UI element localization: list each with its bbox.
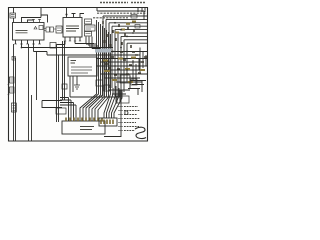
ground bbox=[74, 76, 80, 89]
wire bbox=[22, 18, 42, 23]
wire bbox=[41, 15, 48, 23]
pair down left bbox=[57, 41, 66, 122]
switch box S1 bbox=[12, 103, 17, 112]
fuse F1 bbox=[10, 77, 15, 83]
nested fan wires bbox=[103, 16, 148, 96]
wire pair x62 bbox=[63, 41, 65, 100]
small boxes right middle bbox=[120, 75, 130, 83]
svg-text:D: D bbox=[124, 110, 129, 117]
nested corners to bottom box bbox=[60, 98, 69, 122]
lamp box L1 bbox=[68, 57, 97, 76]
wire bbox=[80, 14, 84, 18]
regulator U2 bbox=[63, 18, 82, 38]
node dots bbox=[8, 84, 10, 86]
colored pins bbox=[66, 118, 102, 122]
small box bbox=[56, 108, 66, 114]
cable squiggle bbox=[135, 127, 146, 138]
wire battery drop bbox=[13, 8, 15, 14]
wire bbox=[28, 20, 34, 23]
CDI unit U1 bbox=[13, 23, 45, 41]
relay K2 bbox=[85, 25, 96, 31]
olive wire marks bbox=[103, 22, 145, 83]
connector band bbox=[95, 49, 111, 53]
U1 top stubs bbox=[32, 20, 41, 23]
wire bbox=[72, 14, 76, 18]
mid small rects bbox=[96, 80, 103, 86]
relay K1 bbox=[85, 19, 92, 24]
fuse F2 bbox=[10, 87, 15, 93]
bottom short line bbox=[104, 136, 121, 138]
wire y51 bbox=[34, 44, 101, 55]
wires right mid bbox=[128, 81, 146, 96]
bottom left rect bbox=[42, 101, 62, 108]
small box top bottom-right bbox=[117, 96, 129, 103]
wire bbox=[40, 8, 42, 18]
crossing horizontals bbox=[96, 52, 148, 98]
U1 bottom pins bbox=[16, 40, 40, 44]
wire x28 bbox=[28, 44, 30, 141]
wire x31 bbox=[31, 95, 33, 141]
small box U3 bbox=[56, 26, 62, 33]
U2 bottom pins bbox=[65, 37, 80, 41]
harness verticals bbox=[97, 20, 111, 90]
wire left pair bbox=[14, 44, 16, 141]
connector J1 bbox=[44, 27, 56, 32]
wire y47 bbox=[22, 44, 114, 48]
pin list text rows bbox=[124, 107, 140, 131]
battery B1 bbox=[10, 13, 16, 18]
junction dots bbox=[102, 22, 140, 75]
harness bend right into CN2 bbox=[104, 86, 122, 118]
wire bbox=[13, 18, 15, 23]
small box bbox=[62, 84, 67, 89]
L1 bottom pins bbox=[70, 76, 104, 97]
top right label text bbox=[93, 13, 146, 18]
weave verticals bbox=[116, 48, 146, 105]
header text above border bbox=[100, 2, 146, 4]
wire x36 bbox=[36, 52, 38, 101]
wire bbox=[14, 57, 16, 59]
bottom right connector CN2 bbox=[99, 118, 117, 126]
top right stubs bbox=[138, 8, 145, 13]
jog mark bbox=[12, 57, 16, 61]
relay K3 bbox=[85, 32, 92, 37]
wire bead marks bbox=[103, 21, 147, 75]
harness bend left into CN1 bbox=[80, 84, 109, 121]
border frame bbox=[9, 8, 148, 142]
small box mid bbox=[50, 43, 56, 49]
wire drop U2 bbox=[66, 8, 68, 15]
component symbols top right bbox=[131, 15, 137, 19]
wire y11 bbox=[97, 8, 144, 21]
bottom connector CN1 bbox=[62, 121, 105, 134]
relay feed wires bbox=[75, 37, 101, 49]
